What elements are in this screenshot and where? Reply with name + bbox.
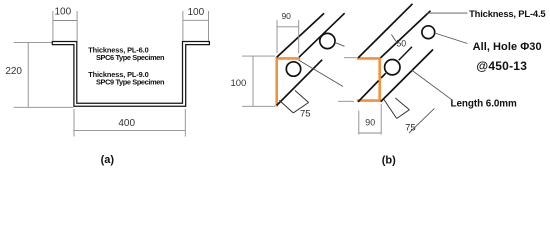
svg-text:SPC6 Type Specimen: SPC6 Type Specimen [96, 53, 165, 62]
channel 2 flange-face hole [422, 26, 435, 39]
dimension 100 top-right (figure a) [183, 11, 209, 41]
channel 2 web hole [385, 59, 400, 74]
channel 2 edge from bottom flange end (inside C) [358, 81, 379, 102]
leader for Thickness PL-4.5 [427, 12, 467, 14]
gray ext line left of channel 2 bottom flange [338, 100, 354, 102]
svg-text:Thickness, PL-4.5: Thickness, PL-4.5 [469, 8, 545, 19]
channel 2 length edge from top corner [381, 11, 431, 58]
svg-text:50: 50 [396, 39, 406, 49]
channel 1 web hole [286, 62, 300, 76]
dimension 50 tick (channel 2 top face) [391, 35, 397, 43]
channel 2 edge between web and hole [381, 73, 386, 78]
dimension 75 (channel 1 bottom, oblique) [279, 91, 308, 113]
gray ext line left of channel 2 top flange [344, 57, 357, 59]
svg-text:(a): (a) [101, 154, 115, 166]
channel 1 orange profile (web + top flange) [277, 58, 299, 105]
channel 2 orange profile (C opening left) [358, 58, 380, 100]
svg-text:Length 6.0mm: Length 6.0mm [451, 98, 518, 109]
channel 1 length edge from top flange end [299, 13, 345, 57]
leader for Length label [412, 70, 453, 100]
dimension 75 (channel 2 bottom, oblique) [384, 98, 409, 119]
channel 1 length edge from top corner [277, 13, 324, 57]
dimension 90 (channel 1 top) [277, 20, 299, 54]
svg-text:90: 90 [365, 117, 375, 127]
svg-text:All, Hole Φ30: All, Hole Φ30 [473, 41, 542, 53]
dimension 90 (channel 2 bottom) [359, 104, 381, 135]
channel 1 flange-face hole [320, 33, 335, 48]
hat-channel profile (figure a) [52, 42, 209, 107]
svg-text:90: 90 [281, 11, 291, 21]
svg-text:@450-13: @450-13 [476, 59, 527, 73]
svg-text:100: 100 [54, 6, 71, 17]
leader from channel 2 flange hole to All,Hole label [435, 33, 468, 44]
leader from channel 1 flange hole [335, 42, 345, 46]
dimension 400 bottom (figure a) [74, 109, 185, 137]
dimension 100 (channel 1 left) [242, 56, 275, 106]
specimen text block (figure a) [88, 45, 165, 86]
svg-text:(b): (b) [382, 154, 396, 166]
channel 2 edge beyond web hole [399, 47, 412, 61]
channel 2 length edge from bottom corner [381, 50, 433, 102]
dimension 100 top-left (figure a) [53, 11, 77, 41]
svg-text:100: 100 [187, 7, 204, 18]
dimension 220 left (figure a) [14, 42, 74, 107]
channel 2 length edge from top flange end [358, 4, 412, 58]
svg-text:400: 400 [118, 118, 135, 129]
svg-text:SPC9 Type Specimen: SPC9 Type Specimen [96, 78, 165, 87]
thin leader line from channel 1 web hole [299, 60, 344, 87]
channel 1 length edge from web bottom corner [277, 60, 323, 106]
svg-text:100: 100 [230, 78, 246, 89]
thin edge below Length leader [409, 108, 434, 133]
svg-text:75: 75 [300, 109, 311, 120]
svg-text:220: 220 [5, 66, 22, 77]
